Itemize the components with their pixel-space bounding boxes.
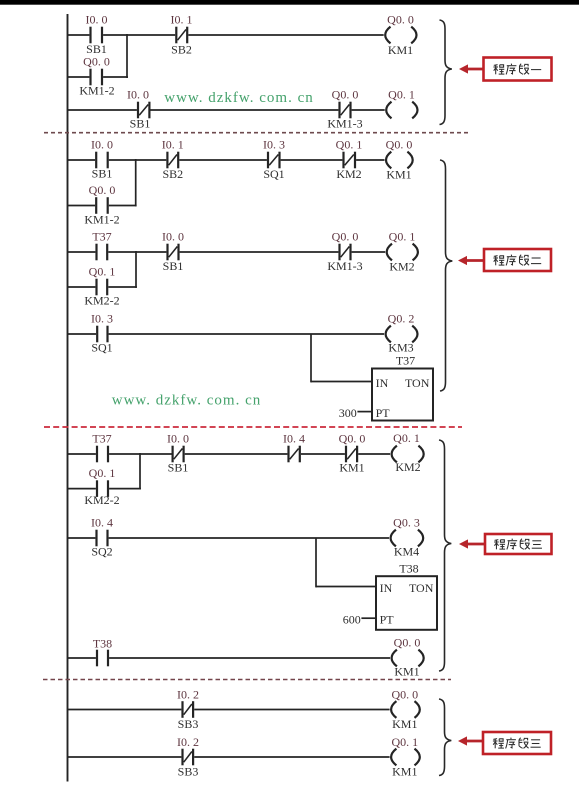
svg-text:Q0. 3: Q0. 3 bbox=[393, 516, 420, 530]
svg-text:I0. 4: I0. 4 bbox=[283, 432, 305, 446]
svg-text:I0. 0: I0. 0 bbox=[86, 13, 108, 27]
svg-text:Q0. 0: Q0. 0 bbox=[387, 13, 414, 27]
svg-text:KM4: KM4 bbox=[394, 545, 419, 559]
svg-text:KM1-2: KM1-2 bbox=[79, 84, 114, 98]
svg-text:SQ1: SQ1 bbox=[91, 341, 112, 355]
svg-text:KM1: KM1 bbox=[392, 765, 417, 779]
svg-text:IN: IN bbox=[380, 581, 393, 595]
svg-text:Q0. 0: Q0. 0 bbox=[386, 138, 413, 152]
svg-text:KM2: KM2 bbox=[389, 260, 414, 274]
svg-text:KM1-3: KM1-3 bbox=[327, 259, 362, 273]
svg-text:T38: T38 bbox=[399, 562, 418, 576]
svg-text:Q0. 1: Q0. 1 bbox=[388, 88, 415, 102]
svg-text:Q0. 1: Q0. 1 bbox=[393, 431, 420, 445]
svg-text:KM1: KM1 bbox=[392, 717, 417, 731]
svg-text:IN: IN bbox=[376, 376, 389, 390]
svg-text:Q0. 0: Q0. 0 bbox=[332, 88, 359, 102]
svg-text:I0. 0: I0. 0 bbox=[91, 138, 113, 152]
svg-text:KM1-3: KM1-3 bbox=[327, 117, 362, 131]
svg-text:KM3: KM3 bbox=[388, 341, 413, 355]
svg-text:I0. 4: I0. 4 bbox=[91, 516, 113, 530]
svg-text:KM2-2: KM2-2 bbox=[84, 493, 119, 507]
svg-text:TON: TON bbox=[409, 581, 434, 595]
svg-text:KM1: KM1 bbox=[386, 168, 411, 182]
svg-text:SB3: SB3 bbox=[178, 717, 199, 731]
svg-text:SB1: SB1 bbox=[168, 461, 189, 475]
svg-text:300: 300 bbox=[339, 406, 357, 420]
svg-text:PT: PT bbox=[380, 612, 395, 626]
svg-text:600: 600 bbox=[343, 612, 361, 626]
svg-text:I0. 3: I0. 3 bbox=[263, 138, 285, 152]
svg-text:Q0. 1: Q0. 1 bbox=[89, 265, 116, 279]
svg-text:KM1-2: KM1-2 bbox=[84, 213, 119, 227]
svg-text:SQ1: SQ1 bbox=[263, 167, 284, 181]
svg-text:SB2: SB2 bbox=[171, 43, 192, 57]
svg-text:T38: T38 bbox=[93, 637, 112, 651]
svg-text:SB2: SB2 bbox=[162, 167, 183, 181]
svg-text:I0. 1: I0. 1 bbox=[171, 13, 193, 27]
svg-text:I0. 0: I0. 0 bbox=[162, 230, 184, 244]
svg-text:Q0. 0: Q0. 0 bbox=[394, 636, 421, 650]
svg-text:Q0. 1: Q0. 1 bbox=[391, 735, 418, 749]
svg-text:T37: T37 bbox=[92, 230, 111, 244]
svg-text:www. dzkfw. com. cn: www. dzkfw. com. cn bbox=[112, 392, 262, 408]
svg-text:I0. 3: I0. 3 bbox=[91, 312, 113, 326]
svg-text:SB1: SB1 bbox=[163, 259, 184, 273]
svg-text:SQ2: SQ2 bbox=[91, 545, 112, 559]
svg-text:PT: PT bbox=[376, 406, 391, 420]
svg-text:Q0. 0: Q0. 0 bbox=[89, 183, 116, 197]
svg-text:Q0. 0: Q0. 0 bbox=[391, 688, 418, 702]
svg-text:SB1: SB1 bbox=[92, 167, 113, 181]
svg-text:I0. 2: I0. 2 bbox=[177, 688, 199, 702]
svg-text:I0. 2: I0. 2 bbox=[177, 735, 199, 749]
svg-text:T37: T37 bbox=[396, 354, 415, 368]
svg-text:Q0. 2: Q0. 2 bbox=[388, 312, 415, 326]
svg-text:Q0. 0: Q0. 0 bbox=[332, 230, 359, 244]
svg-text:KM1: KM1 bbox=[394, 665, 419, 679]
svg-text:Q0. 1: Q0. 1 bbox=[389, 230, 416, 244]
svg-text:KM2: KM2 bbox=[395, 460, 420, 474]
svg-text:Q0. 0: Q0. 0 bbox=[83, 55, 110, 69]
svg-text:www. dzkfw. com. cn: www. dzkfw. com. cn bbox=[164, 90, 314, 106]
svg-text:Q0. 1: Q0. 1 bbox=[89, 466, 116, 480]
svg-text:I0. 0: I0. 0 bbox=[127, 88, 149, 102]
svg-text:TON: TON bbox=[405, 376, 430, 390]
svg-text:KM2-2: KM2-2 bbox=[84, 294, 119, 308]
svg-text:I0. 1: I0. 1 bbox=[162, 138, 184, 152]
svg-text:KM1: KM1 bbox=[388, 43, 413, 57]
svg-text:Q0. 0: Q0. 0 bbox=[339, 432, 366, 446]
svg-text:T37: T37 bbox=[92, 432, 111, 446]
svg-text:SB1: SB1 bbox=[130, 117, 151, 131]
svg-text:I0. 0: I0. 0 bbox=[167, 432, 189, 446]
svg-text:KM1: KM1 bbox=[339, 461, 364, 475]
svg-text:SB3: SB3 bbox=[178, 765, 199, 779]
svg-text:KM2: KM2 bbox=[336, 167, 361, 181]
svg-text:Q0. 1: Q0. 1 bbox=[336, 138, 363, 152]
